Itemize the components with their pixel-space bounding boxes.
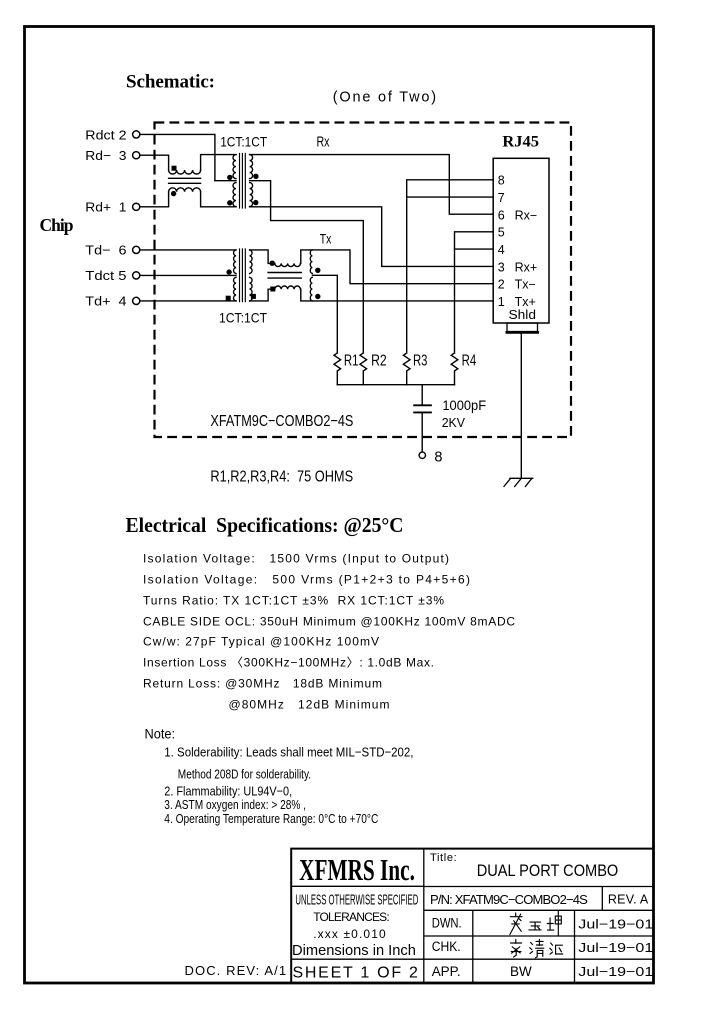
wire RJ45 pin5 to R4 <box>455 232 494 352</box>
wire choke L1 top out to T1 primary top <box>201 155 236 170</box>
svg-text:Dimensions in Inch: Dimensions in Inch <box>292 943 416 959</box>
svg-text:R1: R1 <box>344 352 359 369</box>
svg-text:(One of Two): (One of Two) <box>333 90 436 106</box>
wire T2 secondary top to choke L2 top coil <box>250 250 275 264</box>
wire RJ45 pin4 stub <box>455 248 494 250</box>
drawn signature <box>510 911 561 936</box>
svg-text:1: 1 <box>498 295 505 309</box>
dot T1 secondary lower <box>253 200 258 205</box>
dot T2 secondary lower (square) <box>251 294 256 299</box>
title block REV divider <box>601 887 603 911</box>
dashed module boundary box <box>155 123 572 438</box>
svg-text:DOC. REV: A/1: DOC. REV: A/1 <box>185 963 287 978</box>
title block outer frame <box>291 849 654 983</box>
svg-text:2. Flammability: UL94V−0,: 2. Flammability: UL94V−0, <box>164 783 292 798</box>
dot choke L2 bottom (square) <box>270 287 275 292</box>
transformer T1 primary center tap lead <box>215 180 236 182</box>
line-side winding T3 <box>310 250 312 301</box>
transformer T1 primary winding <box>233 155 236 207</box>
svg-text:7: 7 <box>498 191 505 205</box>
svg-text:3: 3 <box>498 260 505 274</box>
svg-text:4: 4 <box>498 243 505 257</box>
svg-text:5: 5 <box>498 226 505 240</box>
svg-text:P/N: XFATM9C−COMBO2−4S: P/N: XFATM9C−COMBO2−4S <box>430 892 588 907</box>
transformer T2 primary winding <box>234 250 236 301</box>
pin terminal circle 1 <box>133 203 140 210</box>
title block right row line under DWN <box>424 935 655 937</box>
svg-text:BW: BW <box>510 964 532 979</box>
dot T2 primary lower (square) <box>226 296 231 301</box>
checked signature <box>511 939 563 957</box>
svg-text:Tx−: Tx− <box>515 278 536 292</box>
pin terminal circle 5 <box>133 272 140 279</box>
svg-text:Rx−: Rx− <box>515 208 538 222</box>
transformer T2 secondary winding <box>250 250 252 301</box>
svg-text:Rdct 2: Rdct 2 <box>85 127 126 142</box>
svg-text:Rx: Rx <box>317 133 330 150</box>
transformer T1 secondary winding <box>250 155 253 207</box>
transformer T1 core <box>240 154 246 209</box>
choke L1 core <box>169 178 201 183</box>
pin terminal circle 3 <box>133 152 140 159</box>
title block signer divider 2 <box>574 910 576 983</box>
wire T1 secondary top to RJ45 pin6 <box>250 155 494 215</box>
svg-text:Return Loss: @30MHz 18dB Min: Return Loss: @30MHz 18dB Minimum <box>143 677 382 691</box>
wire T2 secondary bottom to choke L2 bottom coil <box>250 289 275 301</box>
svg-text:REV. A: REV. A <box>608 893 649 907</box>
svg-text:Rx+: Rx+ <box>515 260 538 274</box>
wire Td+4 to T2 primary bottom <box>140 300 236 302</box>
wire choke L2 top out to T3 top and RJ45 pin2 riser <box>301 250 493 284</box>
svg-text:R2: R2 <box>371 352 387 369</box>
choke L1 bottom coil <box>169 188 201 192</box>
svg-text:APP.: APP. <box>432 964 461 979</box>
dot choke L1 bottom <box>171 191 176 196</box>
svg-text:Chip: Chip <box>40 215 74 235</box>
svg-text:8: 8 <box>498 174 505 188</box>
resistor R1 <box>334 353 341 385</box>
svg-text:Schematic:: Schematic: <box>126 72 215 93</box>
svg-text:Td− 6: Td− 6 <box>85 242 126 257</box>
node 8 terminal circle <box>419 452 425 458</box>
svg-text:CABLE SIDE OCL: 350uH Minimum: CABLE SIDE OCL: 350uH Minimum @100KHz 10… <box>143 615 515 629</box>
svg-text:DWN.: DWN. <box>432 915 462 930</box>
wire choke L2 bottom out to T3 bottom and RJ45 pin1 <box>301 289 493 301</box>
resistor R3 <box>403 353 410 385</box>
title block signer divider 1 <box>472 910 474 983</box>
polarity dots group <box>171 166 321 301</box>
svg-text:SHEET 1 OF 2: SHEET 1 OF 2 <box>293 964 418 981</box>
svg-text:R1,R2,R3,R4: 75 OHMS: R1,R2,R3,R4: 75 OHMS <box>210 469 353 486</box>
svg-text:Method 208D for solderability.: Method 208D for solderability. <box>178 767 311 782</box>
svg-text:1. Solderability: Leads shall: 1. Solderability: Leads shall meet MIL−S… <box>164 744 413 759</box>
title block left row line above sheet <box>291 958 654 960</box>
dot choke L1 top (square) <box>172 166 177 171</box>
wire T1 secondary center tap to R2 <box>250 181 364 352</box>
wire RJ45 pin8 to R3 <box>407 180 494 352</box>
wire RJ45 shield to ground <box>520 332 522 478</box>
svg-text:Electrical Specifications: @2: Electrical Specifications: @25°C <box>126 513 404 537</box>
RJ45 connector box <box>493 158 549 323</box>
svg-text:Note:: Note: <box>145 726 176 742</box>
svg-text:UNLESS OTHERWISE SPECIFIED: UNLESS OTHERWISE SPECIFIED <box>295 893 418 909</box>
wire RJ45 pin7 stub <box>407 196 494 198</box>
svg-text:8: 8 <box>434 450 442 466</box>
wire T3 center tap to R1 <box>312 275 337 352</box>
title block main vertical divider <box>423 849 425 983</box>
svg-text:2: 2 <box>498 278 505 292</box>
wire capacitor C1 to node 8 <box>421 413 423 452</box>
svg-text:Jul−19−01: Jul−19−01 <box>578 940 653 955</box>
RJ45 tab base <box>506 331 540 334</box>
capacitor C1 plates <box>414 405 431 412</box>
svg-text:Td+ 4: Td+ 4 <box>85 293 126 308</box>
svg-text:DUAL PORT COMBO: DUAL PORT COMBO <box>477 861 619 880</box>
wire Td-6 to T2 primary top <box>140 249 236 251</box>
choke L1 top coil <box>169 170 201 174</box>
svg-text:Isolation Voltage: 500 Vrms: Isolation Voltage: 500 Vrms (P1+2+3 to P… <box>143 572 470 586</box>
dot T1 primary lower <box>227 200 232 205</box>
resistor R2 <box>360 353 367 385</box>
choke L2 top coil <box>275 263 301 266</box>
title block right row line under title <box>424 886 655 888</box>
svg-text:6: 6 <box>498 208 505 222</box>
svg-text:1CT:1CT: 1CT:1CT <box>219 310 267 326</box>
svg-text:R4: R4 <box>462 352 477 369</box>
pin terminal circle 4 <box>133 297 140 304</box>
svg-text:XFMRS Inc.: XFMRS Inc. <box>299 852 415 887</box>
svg-text:1000pF: 1000pF <box>442 397 486 413</box>
svg-text:Isolation Voltage: 1500 Vrms: Isolation Voltage: 1500 Vrms (Input to O… <box>143 551 449 565</box>
svg-text:@80MHz 12dB Minimum: @80MHz 12dB Minimum <box>229 698 390 712</box>
wire choke L1 bottom out to T1 primary bottom <box>201 192 236 207</box>
dot T1 secondary upper <box>253 174 258 179</box>
svg-text:Turns Ratio: TX 1CT:1CT ±3% R: Turns Ratio: TX 1CT:1CT ±3% RX 1CT:1CT ±… <box>143 594 444 608</box>
pin terminal circle 2 <box>133 131 140 138</box>
svg-text:R3: R3 <box>413 352 428 369</box>
wire Rd+1 to choke L1 bottom coil <box>140 192 169 207</box>
svg-text:Rd− 3: Rd− 3 <box>85 148 126 163</box>
svg-text:4. Operating Temperature Range: 4. Operating Temperature Range: 0°C to +… <box>164 811 378 826</box>
svg-text:Tdct 5: Tdct 5 <box>85 268 126 283</box>
title block right row line under P/N <box>424 909 655 911</box>
svg-text:Shld: Shld <box>509 308 537 322</box>
dot choke L2 top <box>270 261 275 266</box>
svg-text:CHK.: CHK. <box>432 939 461 954</box>
svg-text:.xxx ±0.010: .xxx ±0.010 <box>313 927 386 941</box>
svg-text:TOLERANCES:: TOLERANCES: <box>313 910 390 924</box>
svg-text:Insertion Loss 〈300KHz−100MHz〉: Insertion Loss 〈300KHz−100MHz〉: 1.0dB Ma… <box>143 656 434 670</box>
choke L2 bottom coil <box>275 286 301 289</box>
svg-text:Rd+ 1: Rd+ 1 <box>85 199 126 214</box>
svg-text:Jul−19−01: Jul−19−01 <box>578 964 653 979</box>
svg-text:1CT:1CT: 1CT:1CT <box>220 133 267 149</box>
transformer T2 core <box>240 249 246 302</box>
title block left row line under company <box>291 885 424 887</box>
dot T1 primary upper <box>227 175 232 180</box>
svg-text:RJ45: RJ45 <box>502 133 539 150</box>
svg-text:Title:: Title: <box>430 852 457 864</box>
wire T1 secondary bottom to RJ45 pin3 <box>250 207 494 267</box>
resistor R4 <box>451 353 458 385</box>
ground symbol <box>504 478 533 486</box>
svg-text:Tx: Tx <box>320 231 332 246</box>
svg-text:2KV: 2KV <box>442 415 466 430</box>
wire Tdct5 to T2 primary center tap <box>140 274 236 276</box>
svg-text:Tx+: Tx+ <box>515 295 536 309</box>
dot T2 primary upper <box>226 269 231 274</box>
svg-text:Jul−19−01: Jul−19−01 <box>578 916 653 931</box>
wire Rdct2 to T1 primary center tap <box>140 134 215 180</box>
svg-text:Cw/w: 27pF Typical @100KHz 100: Cw/w: 27pF Typical @100KHz 100mV <box>143 635 379 649</box>
dot T3 upper <box>315 268 320 273</box>
dot T3 lower <box>315 294 320 299</box>
pin terminal circle 6 <box>133 246 140 253</box>
wire bus to capacitor C1 <box>421 385 423 406</box>
wire resistor common bus <box>337 384 454 386</box>
wire Rd-3 to choke L1 top coil <box>140 155 169 170</box>
choke L2 core <box>268 273 301 279</box>
RJ45 tab <box>507 323 538 332</box>
svg-text:XFATM9C−COMBO2−4S: XFATM9C−COMBO2−4S <box>210 413 353 430</box>
